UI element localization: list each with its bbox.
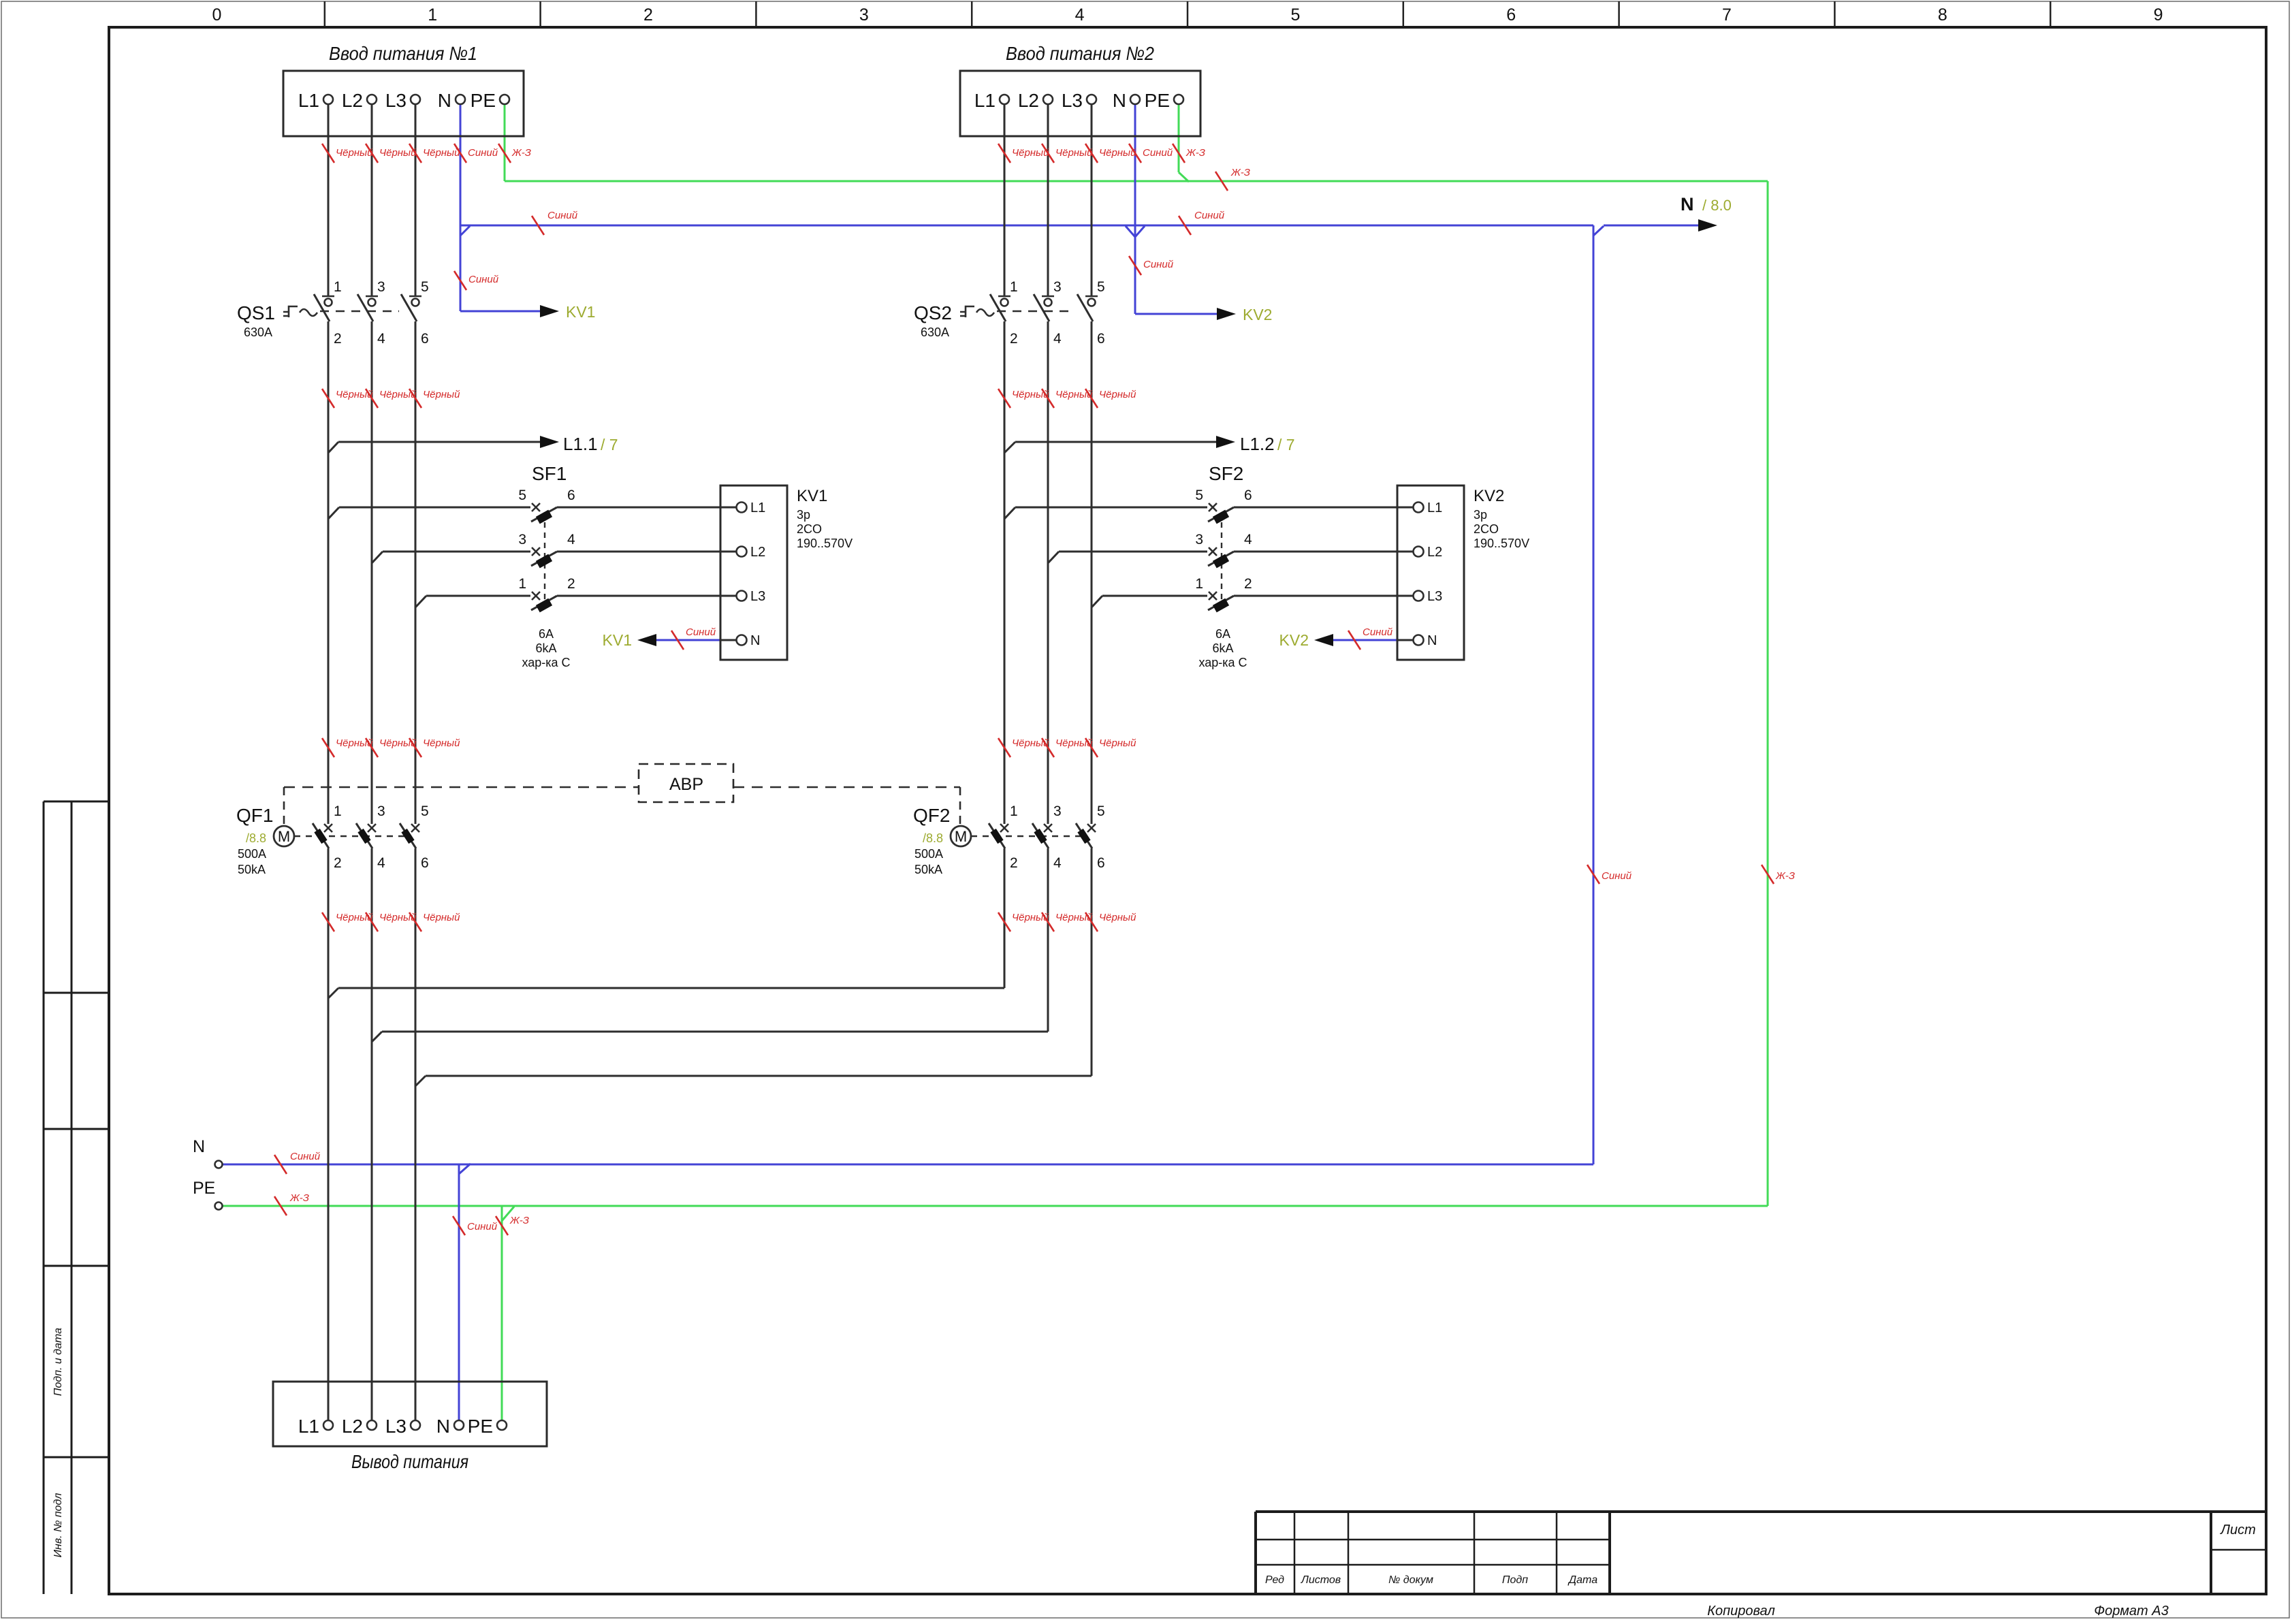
svg-text:Синий: Синий	[686, 626, 716, 638]
wire L1 input2 to QS2	[1004, 104, 1006, 297]
svg-text:Листов: Листов	[1301, 1574, 1341, 1586]
wire crossover L3 with jog	[426, 1075, 1092, 1077]
svg-text:L3: L3	[1427, 589, 1442, 604]
wire KV1 N return	[655, 639, 720, 641]
svg-text:L2: L2	[1018, 90, 1039, 111]
svg-text:6: 6	[1244, 488, 1252, 503]
svg-text:KV2: KV2	[1243, 306, 1272, 323]
svg-text:Чёрный: Чёрный	[1055, 737, 1093, 749]
wire colour labels row A input2	[998, 144, 1010, 163]
svg-text:L2: L2	[1427, 545, 1442, 560]
wire PE drop to output with jog	[501, 1206, 503, 1420]
svg-text:2: 2	[334, 855, 342, 871]
svg-text:Чёрный: Чёрный	[336, 912, 373, 923]
wire colour labels row D input2	[998, 912, 1010, 932]
svg-text:3: 3	[518, 532, 526, 547]
svg-text:4: 4	[567, 532, 575, 547]
svg-text:Чёрный: Чёрный	[336, 147, 373, 159]
svg-text:M: M	[278, 828, 290, 845]
svg-text:8: 8	[1938, 5, 1947, 25]
svg-text:6kA: 6kA	[1212, 641, 1233, 655]
wire N top bus	[460, 225, 1593, 227]
svg-text:1: 1	[334, 803, 342, 819]
wire L3 input1 to QS1	[415, 104, 417, 297]
wire colour label Синий on KV2 return	[1348, 631, 1360, 650]
svg-text:/ 7: / 7	[1277, 436, 1295, 453]
input terminal box X2 (Ввод питания №2)	[960, 71, 1200, 136]
svg-text:6: 6	[421, 331, 429, 347]
wire SF1 pole 3-4 row	[372, 552, 383, 563]
svg-text:L2: L2	[750, 545, 765, 560]
svg-text:N: N	[438, 90, 451, 111]
svg-text:1: 1	[334, 279, 342, 295]
svg-text:3p: 3p	[797, 508, 810, 522]
svg-text:SF1: SF1	[532, 463, 567, 484]
svg-text:50kA: 50kA	[914, 863, 942, 876]
svg-text:3: 3	[1053, 803, 1062, 819]
node KV2 arrow	[1217, 308, 1236, 320]
svg-text:Синий: Синий	[1363, 626, 1393, 638]
wire crossover L2 with jog	[382, 1031, 1048, 1033]
wire QS1 pole2 output vertical	[371, 321, 373, 824]
wire QF1 pole2 output to output box	[371, 848, 373, 1420]
svg-text:Ввод питания №2: Ввод питания №2	[1006, 43, 1154, 64]
wire L3 input2 to QS2	[1091, 104, 1093, 297]
relay KV2 3p 2CO 190..570V	[1397, 485, 1464, 660]
svg-text:/8.8: /8.8	[246, 831, 266, 845]
svg-text:Синий: Синий	[547, 210, 578, 221]
svg-text:1: 1	[518, 576, 526, 592]
wire colour labels row C input1	[322, 738, 334, 757]
svg-text:L3: L3	[385, 1416, 407, 1437]
node N continuation jog to sheet 8.0	[1593, 226, 1604, 236]
svg-text:KV1: KV1	[797, 487, 827, 505]
svg-text:6: 6	[567, 488, 575, 503]
svg-text:QF1: QF1	[236, 805, 273, 826]
svg-text:L1.1: L1.1	[563, 434, 598, 454]
svg-text:5: 5	[1195, 488, 1203, 503]
svg-text:АВР: АВР	[669, 775, 703, 794]
ATS control link (dashed) QF2 side	[733, 786, 960, 789]
svg-text:5: 5	[1097, 803, 1105, 819]
wire PE input2 drop with jog	[1178, 104, 1180, 172]
wire L2 input1 to QS1	[371, 104, 373, 297]
wire N input2 drop	[1134, 104, 1136, 314]
wire QF1 pole1 output to output box	[328, 848, 330, 1420]
svg-text:Ж-З: Ж-З	[1775, 870, 1795, 882]
svg-text:3: 3	[1053, 279, 1062, 295]
node L1.2 /7 off-sheet arrow	[1015, 441, 1219, 443]
svg-text:Ред: Ред	[1265, 1574, 1284, 1586]
svg-text:4: 4	[1244, 532, 1252, 547]
node N junction input2 V-notch	[1126, 226, 1145, 237]
output terminal box (Вывод питания)	[273, 1382, 547, 1446]
svg-text:3: 3	[859, 5, 869, 25]
wire PE input1 drop	[504, 104, 506, 181]
svg-text:Чёрный: Чёрный	[336, 737, 373, 749]
svg-text:Подп. и дата: Подп. и дата	[52, 1328, 64, 1396]
svg-text:KV1: KV1	[603, 631, 632, 649]
svg-text:L1: L1	[750, 500, 765, 515]
wire colour label Синий on N right riser	[1587, 865, 1599, 884]
node N junction input1 jog	[460, 226, 470, 236]
wire colour label Ж-З on PE right riser	[1762, 865, 1774, 884]
wire N right riser	[1593, 225, 1595, 1164]
svg-text:Синий: Синий	[1143, 259, 1174, 270]
wire L1 input1 to QS1	[328, 104, 330, 297]
node L1.1 /7 off-sheet arrow	[338, 441, 543, 443]
svg-text:Синий: Синий	[1143, 147, 1173, 159]
svg-text:2: 2	[1244, 576, 1252, 592]
svg-text:Синий: Синий	[1602, 870, 1632, 882]
node KV2 return arrow	[1314, 634, 1333, 646]
svg-text:Чёрный: Чёрный	[1099, 737, 1136, 749]
svg-text:Синий: Синий	[1194, 210, 1225, 221]
svg-text:Копировал: Копировал	[1707, 1604, 1774, 1619]
svg-text:Подп: Подп	[1502, 1574, 1528, 1586]
wire KV2 N return	[1332, 639, 1397, 641]
svg-text:1: 1	[1010, 279, 1018, 295]
svg-text:2CO: 2CO	[1474, 522, 1499, 536]
wire colour labels row B input1	[322, 389, 334, 408]
svg-text:630A: 630A	[921, 325, 949, 339]
wire N input1 drop	[460, 104, 462, 311]
svg-text:Дата: Дата	[1567, 1574, 1597, 1586]
svg-text:9: 9	[2154, 5, 2163, 25]
wire colour labels row D input1	[322, 912, 334, 932]
svg-text:Синий: Синий	[468, 147, 498, 159]
svg-text:PE: PE	[1145, 90, 1170, 111]
wire QS1 pole1 output vertical	[328, 321, 330, 824]
wire colour labels row B input2	[998, 389, 1010, 408]
svg-text:4: 4	[377, 855, 385, 871]
wire N drop to output with jog	[458, 1164, 460, 1420]
wire SF2 pole 3-4 row	[1048, 552, 1059, 563]
svg-text:3: 3	[377, 803, 385, 819]
svg-text:Синий: Синий	[290, 1151, 321, 1162]
svg-text:L1: L1	[1427, 500, 1442, 515]
svg-text:PE: PE	[193, 1179, 215, 1198]
svg-text:Инв. № подл: Инв. № подл	[52, 1493, 64, 1558]
wire PE bottom bus	[223, 1205, 1768, 1207]
svg-text:/ 7: / 7	[601, 436, 618, 453]
svg-text:L1: L1	[298, 90, 319, 111]
svg-text:Чёрный: Чёрный	[1055, 912, 1093, 923]
svg-text:Чёрный: Чёрный	[1012, 912, 1049, 923]
svg-text:QS2: QS2	[914, 302, 952, 323]
svg-text:3: 3	[377, 279, 385, 295]
wire colour labels row C input2	[998, 738, 1010, 757]
wire colour label Синий on KV1 return	[671, 631, 684, 650]
wire colour label Ж-З on PE bus right of input2	[1215, 172, 1228, 191]
svg-text:KV2: KV2	[1279, 631, 1309, 649]
wire SF1 pole 5-6 row	[328, 507, 339, 519]
svg-text:N: N	[750, 633, 760, 648]
svg-text:L2: L2	[342, 1416, 363, 1437]
svg-text:2: 2	[1010, 855, 1018, 871]
wire colour label Синий on N bottom bus	[274, 1155, 287, 1174]
wire colour label Ж-З on PE output drop	[496, 1216, 508, 1235]
svg-text:KV2: KV2	[1474, 487, 1504, 505]
wire QF2 pole2 output down	[1047, 848, 1049, 1032]
svg-text:Чёрный: Чёрный	[379, 147, 417, 159]
svg-text:Чёрный: Чёрный	[379, 737, 417, 749]
svg-text:Чёрный: Чёрный	[1012, 147, 1049, 159]
svg-text:Чёрный: Чёрный	[379, 912, 417, 923]
svg-text:Ж-З: Ж-З	[1230, 167, 1250, 178]
wire QF2 pole3 output down	[1091, 848, 1093, 1076]
wire QS2 pole3 output vertical	[1091, 321, 1093, 824]
wire L2 input2 to QS2	[1047, 104, 1049, 297]
svg-text:L3: L3	[1062, 90, 1083, 111]
svg-text:Ж-З: Ж-З	[289, 1192, 309, 1204]
svg-text:Синий: Синий	[468, 274, 499, 285]
svg-text:Чёрный: Чёрный	[1099, 389, 1136, 400]
svg-text:6kA: 6kA	[535, 641, 556, 655]
svg-text:Лист: Лист	[2219, 1523, 2256, 1538]
svg-text:6A: 6A	[1215, 627, 1230, 641]
svg-text:Чёрный: Чёрный	[1099, 147, 1136, 159]
svg-text:Чёрный: Чёрный	[1099, 912, 1136, 923]
svg-text:6: 6	[1097, 331, 1105, 347]
svg-text:N: N	[1427, 633, 1437, 648]
svg-text:50kA: 50kA	[238, 863, 266, 876]
svg-text:L3: L3	[385, 90, 407, 111]
svg-text:5: 5	[1097, 279, 1105, 295]
svg-text:4: 4	[1053, 331, 1062, 347]
wire SF2 pole 5-6 row	[1004, 507, 1015, 519]
svg-text:190..570V: 190..570V	[797, 537, 853, 550]
svg-text:Чёрный: Чёрный	[423, 147, 460, 159]
wire QS2 pole2 output vertical	[1047, 321, 1049, 824]
svg-text:Ж-З: Ж-З	[511, 147, 531, 159]
ATS box АВР	[639, 764, 733, 802]
input terminal box X1 (Ввод питания №1)	[283, 71, 524, 136]
svg-text:N: N	[436, 1416, 450, 1437]
wire crossover L1 (QF2 to bus) with jog	[338, 987, 1004, 989]
svg-text:4: 4	[377, 331, 385, 347]
svg-text:Чёрный: Чёрный	[423, 389, 460, 400]
svg-text:2: 2	[567, 576, 575, 592]
svg-text:KV1: KV1	[566, 303, 595, 321]
svg-text:6: 6	[1097, 855, 1105, 871]
svg-text:№ докум: № докум	[1388, 1574, 1433, 1586]
svg-text:N: N	[193, 1137, 205, 1156]
svg-text:PE: PE	[471, 90, 496, 111]
svg-text:L1: L1	[974, 90, 996, 111]
svg-text:500A: 500A	[914, 847, 943, 861]
node KV1 return arrow	[637, 634, 656, 646]
svg-text:Формат А3: Формат А3	[2094, 1604, 2168, 1619]
svg-text:7: 7	[1722, 5, 1732, 25]
svg-text:1: 1	[1195, 576, 1203, 592]
svg-text:M: M	[955, 828, 967, 845]
wire KV2 coil branch	[1135, 313, 1220, 315]
svg-text:5: 5	[421, 803, 429, 819]
svg-text:190..570V: 190..570V	[1474, 537, 1529, 550]
svg-text:QF2: QF2	[913, 805, 950, 826]
svg-text:3: 3	[1195, 532, 1203, 547]
svg-text:4: 4	[1053, 855, 1062, 871]
wire QF2 pole1 output down	[1004, 848, 1006, 988]
svg-text:L2: L2	[342, 90, 363, 111]
wire QS2 pole1 output vertical	[1004, 321, 1006, 824]
svg-text:2: 2	[643, 5, 653, 25]
svg-text:PE: PE	[468, 1416, 493, 1437]
node N /8.0 off-sheet arrow	[1698, 219, 1717, 232]
svg-text:Вывод питания: Вывод питания	[351, 1451, 468, 1472]
svg-text:N: N	[1113, 90, 1126, 111]
wire QF1 pole3 output to output box	[415, 848, 417, 1420]
svg-text:Ввод питания №1: Ввод питания №1	[329, 43, 477, 64]
svg-text:0: 0	[212, 5, 221, 25]
svg-text:хар-ка C: хар-ка C	[522, 656, 570, 669]
svg-text:500A: 500A	[238, 847, 266, 861]
wire PE right riser	[1767, 181, 1769, 1206]
svg-text:хар-ка C: хар-ка C	[1198, 656, 1247, 669]
svg-text:2: 2	[334, 331, 342, 347]
svg-text:5: 5	[518, 488, 526, 503]
svg-text:L1.2: L1.2	[1240, 434, 1275, 454]
svg-text:L3: L3	[750, 589, 765, 604]
wire colour label Синий on N output drop	[453, 1216, 465, 1235]
wire N bottom bus	[223, 1164, 1593, 1166]
svg-text:2: 2	[1010, 331, 1018, 347]
wire colour labels row A input1	[322, 144, 334, 163]
svg-text:630A: 630A	[244, 325, 272, 339]
wire SF1 pole 1-2 row	[415, 596, 426, 607]
svg-text:Чёрный: Чёрный	[1055, 147, 1093, 159]
relay KV1 3p 2CO 190..570V	[720, 485, 787, 660]
svg-text:5: 5	[1290, 5, 1300, 25]
svg-text:SF2: SF2	[1209, 463, 1243, 484]
wire SF2 pole 1-2 row	[1092, 596, 1102, 607]
svg-text:/ 8.0: / 8.0	[1702, 197, 1732, 214]
wire PE top bus	[505, 180, 1768, 182]
svg-text:6: 6	[421, 855, 429, 871]
wire colour label Синий on N drop input2	[1129, 256, 1141, 275]
svg-text:Чёрный: Чёрный	[1012, 737, 1049, 749]
wire QS1 pole3 output vertical	[415, 321, 417, 824]
svg-text:Ж-З: Ж-З	[1185, 147, 1205, 159]
wire KV1 coil branch	[460, 311, 543, 313]
svg-text:5: 5	[421, 279, 429, 295]
svg-text:L1: L1	[298, 1416, 319, 1437]
svg-text:6: 6	[1506, 5, 1516, 25]
svg-text:1: 1	[1010, 803, 1018, 819]
svg-text:N: N	[1681, 194, 1694, 214]
svg-text:Ж-З: Ж-З	[509, 1215, 529, 1226]
node KV1 arrow	[540, 305, 559, 317]
svg-text:4: 4	[1075, 5, 1085, 25]
svg-text:QS1: QS1	[237, 302, 275, 323]
svg-text:/8.8: /8.8	[923, 831, 943, 845]
svg-text:Синий: Синий	[467, 1221, 498, 1232]
svg-text:1: 1	[428, 5, 437, 25]
svg-text:2CO: 2CO	[797, 522, 822, 536]
svg-text:6A: 6A	[539, 627, 554, 641]
ATS control link (dashed) QF1 side	[284, 786, 639, 789]
svg-text:3p: 3p	[1474, 508, 1487, 522]
wire colour label Синий on N bus (input1 side)	[532, 216, 544, 235]
wire colour label Ж-З on PE bottom bus	[274, 1196, 287, 1215]
wire colour label Синий on N bus (input2 side)	[1179, 216, 1191, 235]
svg-text:Чёрный: Чёрный	[423, 737, 460, 749]
wire colour label Синий on N drop input1	[454, 271, 466, 290]
svg-text:Чёрный: Чёрный	[423, 912, 460, 923]
